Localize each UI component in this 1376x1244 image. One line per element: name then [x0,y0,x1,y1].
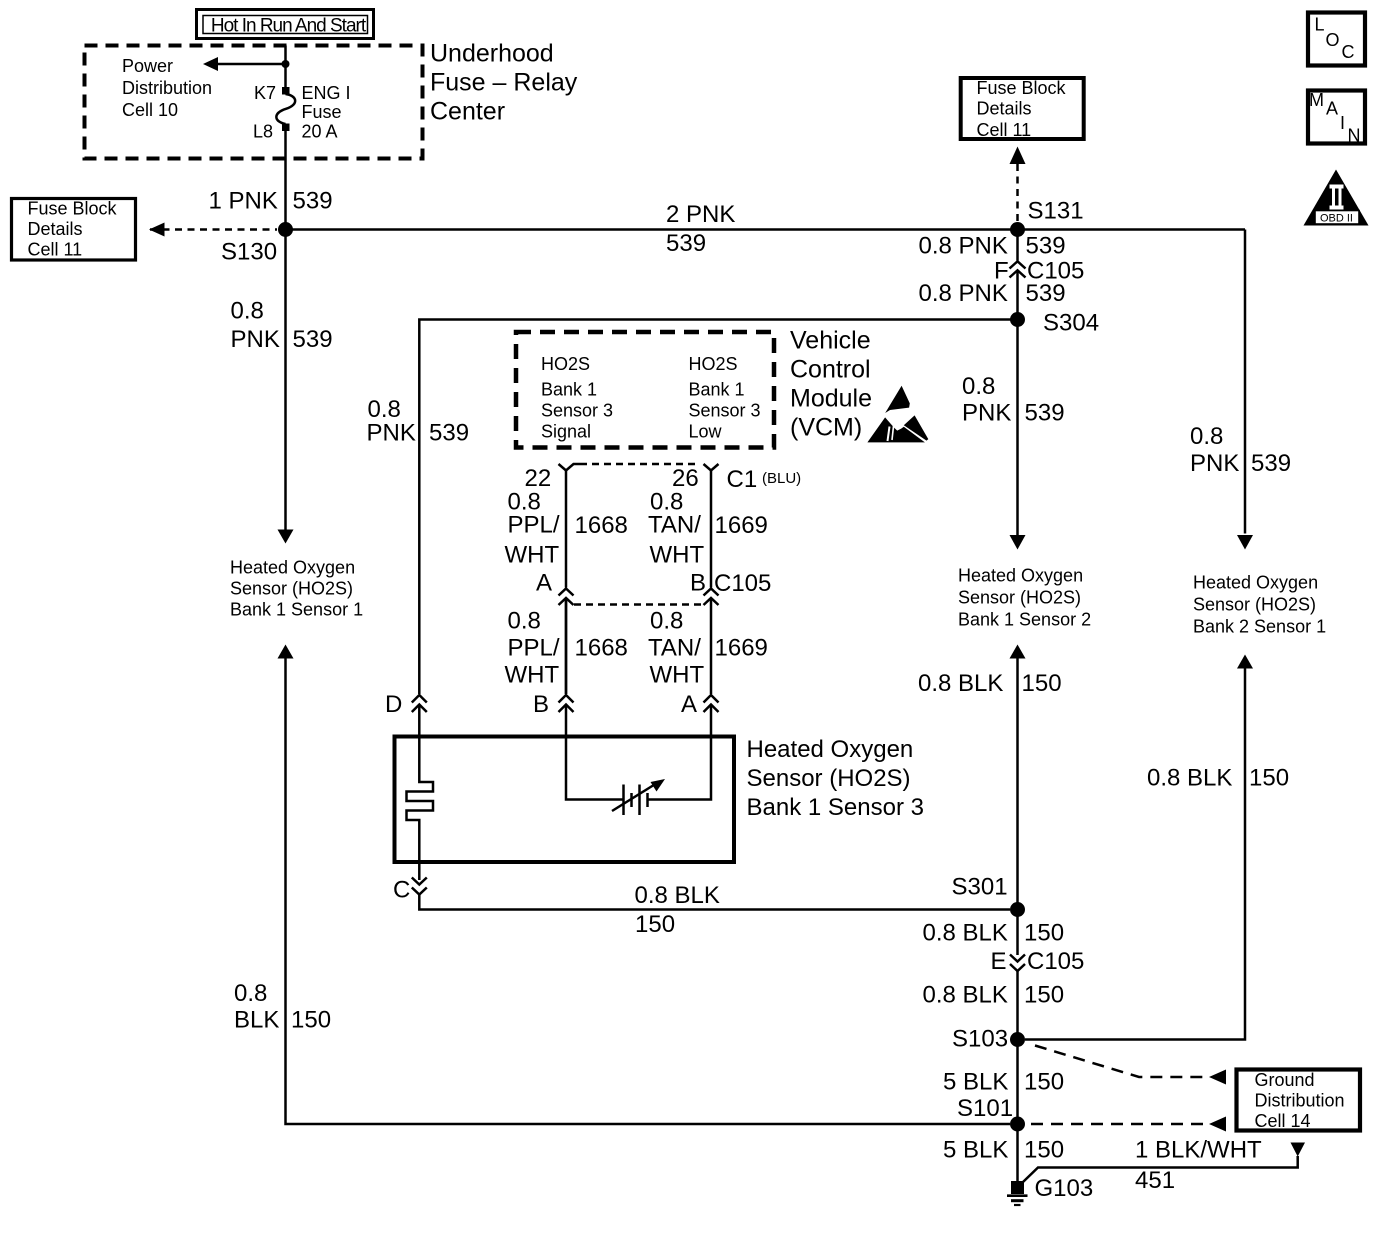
svg-text:539: 539 [1251,450,1291,477]
svg-text:0.8 PNK: 0.8 PNK [919,233,1008,260]
svg-text:2 PNK: 2 PNK [666,201,735,228]
svg-text:C105: C105 [714,570,771,597]
node splice S301 [952,874,1026,918]
svg-text:1669: 1669 [715,635,768,662]
svg-text:0.8 BLK: 0.8 BLK [1147,765,1232,792]
svg-text:Distribution: Distribution [1255,1091,1345,1111]
connector C105 pin B [690,570,771,606]
svg-text:S101: S101 [957,1095,1013,1122]
svg-text:OBD II: OBD II [1320,213,1353,225]
sensor cell element (pins B to A) [566,598,711,815]
svg-text:PNK: PNK [231,326,280,353]
svg-text:S103: S103 [952,1026,1008,1053]
svg-text:539: 539 [666,230,706,257]
svg-text:Sensor (HO2S): Sensor (HO2S) [230,579,353,599]
svg-text:S301: S301 [952,874,1008,901]
wire C105 F down to S304 [1010,270,1026,549]
svg-text:150: 150 [635,911,675,938]
svg-text:PNK: PNK [1190,450,1239,477]
box Underhood Fuse-Relay Center (dashed) [85,46,423,159]
svg-text:Sensor (HO2S): Sensor (HO2S) [747,765,911,792]
svg-text:Power: Power [122,56,173,76]
svg-text:WHT: WHT [650,662,705,689]
label Heated Oxygen Sensor (HO2S) Bank 1 Sensor 3 [747,736,924,821]
svg-text:Control: Control [790,356,871,384]
svg-text:PPL/: PPL/ [508,512,560,539]
svg-text:HO2S: HO2S [689,354,738,374]
wire dashed arrow S130 to Fuse Block Details [149,223,277,237]
svg-text:L8: L8 [253,122,273,142]
label 0.8 PNK 539 (far right) [1190,423,1291,477]
wire 2 PNK 539 horizontal bus [286,228,1246,231]
svg-text:HO2S: HO2S [541,354,590,374]
wire dashed S101 to Ground Distribution box [1031,1117,1226,1132]
svg-text:5 BLK: 5 BLK [943,1069,1008,1096]
svg-text:539: 539 [1026,233,1066,260]
node splice S130 [221,222,293,266]
label 0.8 PNK 539 (VCM branch) [367,396,470,447]
symbol OBD II triangle [1304,170,1369,226]
svg-text:150: 150 [291,1007,331,1034]
node junction to Power Distribution [282,60,290,68]
svg-text:Bank 1: Bank 1 [689,380,745,400]
svg-text:A: A [681,691,697,718]
svg-text:Fuse: Fuse [302,102,342,122]
svg-text:1669: 1669 [715,512,768,539]
wire HO2S B1S1 ground return (left) [278,645,1011,1125]
svg-text:539: 539 [1025,400,1065,427]
svg-text:Distribution: Distribution [122,78,212,98]
label 0.8 PNK 539 (left line) [231,298,333,354]
heater element (pin D to pin C) [407,705,434,881]
svg-text:C: C [393,877,410,904]
label Heated Oxygen Sensor (HO2S) Bank 1 Sensor 2 [958,566,1091,630]
svg-text:Bank 1 Sensor 3: Bank 1 Sensor 3 [747,794,924,821]
symbol ESD sensitive [867,386,928,443]
node splice S304 [1010,310,1099,337]
svg-text:1 BLK/WHT: 1 BLK/WHT [1135,1137,1262,1164]
label Underhood Fuse-Relay Center [430,40,578,126]
svg-text:B: B [690,570,706,597]
svg-text:Cell 11: Cell 11 [977,120,1032,140]
box Fuse Block Details Cell 11 (top right) [961,78,1084,140]
svg-text:Heated Oxygen: Heated Oxygen [230,558,355,578]
svg-text:20 A: 20 A [302,122,338,142]
svg-text:539: 539 [429,420,469,447]
svg-text:Sensor (HO2S): Sensor (HO2S) [1193,595,1316,615]
svg-text:5 BLK: 5 BLK [943,1137,1008,1164]
wire dashed arrow S131 up to Fuse Block Details [1010,147,1026,225]
label 0.8 BLK 150 (below S301) [923,920,1065,947]
svg-text:Hot In Run And Start: Hot In Run And Start [211,16,367,37]
wire C105 A down to sensor pin B [565,598,568,694]
svg-text:G103: G103 [1035,1175,1094,1202]
wire S131 down to connector C105 F [1016,230,1019,261]
label 5 BLK 150 (below S103) [943,1069,1064,1096]
label Heated Oxygen Sensor (HO2S) Bank 2 Sensor 1 [1193,573,1326,637]
svg-text:N: N [1348,126,1361,146]
node splice S101 [957,1095,1025,1132]
node splice S131 [1010,198,1084,238]
wire HO2S B2S1 ground return to S103 [1025,655,1253,1040]
connector sensor pin B [533,691,574,718]
wire C105 B down to sensor pin A [710,598,713,694]
connector C1 pin 26 [672,464,801,588]
svg-text:539: 539 [1026,280,1066,307]
svg-text:L: L [1315,15,1325,35]
svg-text:Fuse Block: Fuse Block [28,199,118,219]
label 0.8 BLK 150 (pin C wire) [635,882,720,938]
node splice S103 [952,1026,1025,1053]
svg-text:Module: Module [790,385,872,413]
box Fuse Block Details Cell 11 (left) [12,199,136,261]
label 2 PNK 539 [666,201,735,257]
svg-text:1668: 1668 [575,512,628,539]
connector C1 dashed face [580,463,697,466]
wire dashed S103 to Ground Distribution box [1035,1046,1226,1085]
label 0.8 PPL/WHT 1668 (lower) [505,608,628,689]
svg-text:150: 150 [1022,670,1062,697]
svg-text:PNK: PNK [367,420,416,447]
svg-text:PPL/: PPL/ [508,635,560,662]
connector sensor pin D [385,691,427,718]
svg-text:539: 539 [293,188,333,215]
svg-text:150: 150 [1024,920,1064,947]
svg-text:Heated Oxygen: Heated Oxygen [958,566,1083,586]
svg-text:O: O [1326,30,1340,50]
svg-text:ENG I: ENG I [302,83,351,103]
label Vehicle Control Module (VCM) [790,327,872,442]
wire 1 BLK/WHT 451 to ground [1023,1137,1305,1195]
box Heated Oxygen Sensor Bank 1 Sensor 3 [395,737,735,863]
box Hot In Run And Start [197,10,374,39]
svg-text:E: E [991,948,1007,975]
label 5 BLK 150 (below S101) [943,1137,1064,1164]
svg-text:Underhood: Underhood [430,40,554,68]
svg-text:BLK: BLK [234,1007,279,1034]
svg-text:Ground: Ground [1255,1070,1315,1090]
svg-text:PNK: PNK [962,400,1011,427]
svg-text:Fuse – Relay: Fuse – Relay [430,69,578,97]
svg-text:S131: S131 [1028,198,1084,225]
label HO2S Bank 1 Sensor 3 Low [689,354,761,442]
svg-text:Cell 14: Cell 14 [1255,1111,1311,1131]
box Ground Distribution Cell 14 [1237,1070,1361,1132]
svg-text:S304: S304 [1043,310,1099,337]
wire HO2S B1S2 ground return to S301 [1010,645,1026,956]
connector sensor pin C [393,877,427,904]
svg-text:Heated Oxygen: Heated Oxygen [1193,573,1318,593]
label 1 PNK 539 [209,188,333,215]
svg-text:C105: C105 [1027,948,1084,975]
svg-text:TAN/: TAN/ [648,635,701,662]
label 0.8 TAN/WHT 1669 (lower) [648,608,768,689]
svg-text:D: D [385,691,402,718]
svg-text:Signal: Signal [541,422,591,442]
svg-text:A: A [536,570,552,597]
box Vehicle Control Module (dashed) [516,332,774,448]
svg-text:Details: Details [28,219,83,239]
svg-text:0.8 BLK: 0.8 BLK [923,982,1008,1009]
label 0.8 TAN/WHT 1669 (upper) [648,489,768,569]
svg-text:1668: 1668 [575,635,628,662]
svg-text:150: 150 [1024,1137,1064,1164]
label 0.8 BLK 150 (far right) [1147,765,1289,792]
svg-text:(VCM): (VCM) [790,414,862,442]
svg-text:1 PNK: 1 PNK [209,188,278,215]
svg-text:Cell 10: Cell 10 [122,100,178,120]
ground G103 [1007,1175,1093,1205]
svg-text:0.8 BLK: 0.8 BLK [923,920,1008,947]
svg-text:Bank 1 Sensor 1: Bank 1 Sensor 1 [230,600,363,620]
wire 2 PNK branch down to HO2S B2S1 [1237,230,1253,550]
svg-text:Bank 2 Sensor 1: Bank 2 Sensor 1 [1193,617,1326,637]
svg-text:451: 451 [1135,1167,1175,1194]
svg-text:TAN/: TAN/ [648,512,701,539]
label 0.8 PNK 539 (above C105 F) [919,233,1066,260]
svg-text:(BLU): (BLU) [762,470,801,487]
label HO2S Bank 1 Sensor 3 Signal [541,354,613,442]
svg-text:Fuse Block: Fuse Block [977,78,1067,98]
svg-text:S130: S130 [221,239,277,266]
svg-text:0.8 PNK: 0.8 PNK [919,280,1008,307]
connector C105 pin F [994,258,1084,285]
svg-text:150: 150 [1024,1069,1064,1096]
svg-text:WHT: WHT [505,542,560,569]
wire fuse L8 down to S130 and on to HO2S B1S1 arrow [278,131,294,544]
wire S304 to VCM branch (0.8 PNK 539) [419,320,1017,695]
svg-text:Sensor 3: Sensor 3 [689,401,761,421]
label Power Distribution Cell 10 [122,56,212,120]
svg-text:Sensor 3: Sensor 3 [541,401,613,421]
symbol LOC box [1308,13,1365,66]
fuse ENG I 20A [253,83,351,142]
wire from Hot In Run to fuse K7 [284,46,287,88]
svg-text:Sensor (HO2S): Sensor (HO2S) [958,588,1081,608]
svg-text:150: 150 [1024,982,1064,1009]
label 0.8 PPL/WHT 1668 (upper) [505,489,628,569]
connector sensor pin A [681,691,719,718]
svg-text:Heated Oxygen: Heated Oxygen [747,736,914,763]
label Heated Oxygen Sensor (HO2S) Bank 1 Sensor 1 [230,558,363,620]
svg-text:M: M [1309,90,1324,110]
symbol MAIN box [1308,90,1365,146]
wire pin C to S301 (0.8 BLK 150) [419,895,1010,910]
svg-text:WHT: WHT [505,662,560,689]
wire C105 E down to ground G103 [1016,971,1019,1182]
svg-text:Cell 11: Cell 11 [28,240,83,260]
svg-text:I: I [1340,113,1345,133]
svg-text:Details: Details [977,99,1032,119]
wire arrow to Power Distribution [203,57,286,71]
label 0.8 PNK 539 (below C105 F) [919,280,1066,307]
label 0.8 BLK 150 (below C105 E) [923,982,1065,1009]
svg-text:Vehicle: Vehicle [790,327,871,355]
connector C105 pin A [536,570,574,606]
svg-text:539: 539 [293,326,333,353]
svg-text:B: B [533,691,549,718]
svg-text:0.8 BLK: 0.8 BLK [635,882,720,909]
svg-text:C: C [1342,42,1355,62]
svg-text:WHT: WHT [650,542,705,569]
svg-text:A: A [1326,99,1338,119]
label 0.8 BLK 150 (below B1S2) [918,670,1062,697]
svg-text:K7: K7 [254,83,276,103]
connector C105 pin E [991,948,1085,975]
svg-text:0.8: 0.8 [1190,423,1223,450]
svg-text:0.8: 0.8 [650,608,683,635]
label 0.8 PNK 539 (S304 drop) [962,373,1065,427]
svg-text:Bank 1 Sensor 2: Bank 1 Sensor 2 [958,610,1091,630]
svg-text:0.8: 0.8 [231,298,264,325]
connector C105 dashed face (A-B) [574,603,703,606]
svg-text:0.8: 0.8 [962,373,995,400]
connector C1 pin 22 [525,464,581,588]
svg-text:Center: Center [430,98,505,126]
svg-text:C1: C1 [727,466,758,493]
svg-text:0.8: 0.8 [234,980,267,1007]
svg-text:150: 150 [1249,765,1289,792]
svg-text:0.8 BLK: 0.8 BLK [918,670,1003,697]
label 0.8 BLK 150 (left bottom) [234,980,331,1034]
svg-text:Low: Low [689,422,723,442]
svg-text:Bank 1: Bank 1 [541,380,597,400]
svg-text:0.8: 0.8 [508,608,541,635]
